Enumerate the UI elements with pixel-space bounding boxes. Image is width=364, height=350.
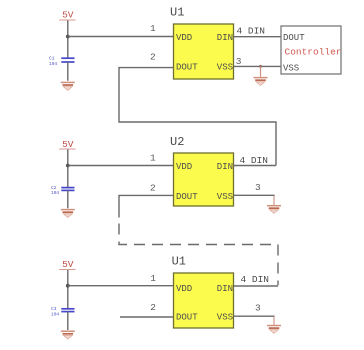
svg-text:VDD: VDD: [176, 33, 192, 43]
junction dot at 5V/VDD tap (middle): [66, 164, 70, 168]
svg-text:2: 2: [150, 302, 156, 313]
svg-text:U1: U1: [170, 6, 184, 20]
IC U1 (top) body: [174, 24, 234, 79]
IC U2 body: [174, 153, 234, 206]
capacitor C2: [51, 185, 75, 196]
wire: U1 VSS to Controller VSS: [234, 65, 282, 67]
wire: bottom U1 DIN stub: [234, 285, 279, 287]
wire: capacitor C1 to ground: [67, 62, 69, 81]
capacitor C1: [49, 56, 75, 67]
ground (below C1): [61, 82, 75, 90]
capacitor C3: [51, 306, 75, 317]
wire: 5V down to capacitor C2 top: [67, 150, 69, 188]
ground (top right, on VSS net): [254, 66, 268, 85]
svg-text:1: 1: [150, 273, 156, 284]
power flag 5V (bottom): [59, 259, 75, 270]
wire: junction to bottom U1 pin 1 (VDD): [68, 285, 174, 287]
wire: U2 DOUT left and partway down (solid): [119, 195, 174, 217]
wire: capacitor C3 to ground: [67, 312, 69, 330]
wire (dashed continuation): down, across, down to bottom U1 DIN: [119, 224, 278, 286]
wire: 5V down to capacitor C1 top: [67, 21, 69, 58]
svg-text:VSS: VSS: [217, 63, 233, 73]
wire: bottom U1 VSS stub to ground: [234, 315, 275, 317]
svg-text:2: 2: [150, 52, 156, 63]
power flag 5V (middle): [59, 139, 75, 150]
junction dot at VSS/ground tap: [259, 65, 262, 68]
svg-text:1: 1: [150, 23, 156, 34]
svg-text:C3: C3: [51, 306, 57, 312]
svg-text:VSS: VSS: [283, 63, 299, 73]
ground (middle right, on U2 VSS): [267, 206, 281, 214]
svg-text:4 DIN: 4 DIN: [237, 26, 266, 37]
svg-text:104: 104: [51, 190, 59, 196]
svg-text:C1: C1: [49, 56, 55, 62]
svg-text:5V: 5V: [62, 259, 74, 270]
svg-text:104: 104: [51, 311, 59, 317]
svg-text:DIN: DIN: [217, 284, 233, 294]
svg-text:VDD: VDD: [176, 162, 192, 172]
svg-text:3: 3: [255, 302, 261, 313]
wire: U2 DIN stub: [234, 165, 277, 167]
power flag 5V (top): [59, 9, 75, 20]
svg-text:DOUT: DOUT: [176, 313, 198, 323]
svg-text:DIN: DIN: [217, 33, 233, 43]
junction dot at 5V/VDD tap (bottom): [66, 284, 70, 288]
svg-text:Controller: Controller: [285, 47, 342, 58]
svg-text:DIN: DIN: [217, 162, 233, 172]
svg-text:5V: 5V: [62, 9, 74, 20]
svg-text:104: 104: [49, 61, 57, 67]
wire: U1 DOUT left then down and across to U2 DIN: [119, 68, 276, 166]
svg-text:DOUT: DOUT: [176, 63, 198, 73]
svg-text:C2: C2: [51, 185, 57, 191]
svg-text:VSS: VSS: [217, 192, 233, 202]
wire: U1 DIN to Controller DOUT: [234, 36, 282, 38]
wire: capacitor C2 to ground: [67, 190, 69, 208]
svg-text:4 DIN: 4 DIN: [241, 274, 270, 285]
svg-text:VDD: VDD: [176, 284, 192, 294]
svg-text:2: 2: [150, 182, 156, 193]
svg-text:4 DIN: 4 DIN: [240, 155, 269, 166]
svg-text:5V: 5V: [62, 139, 74, 150]
ground (below C2): [61, 210, 75, 218]
wire: junction to U2 pin 1 (VDD): [68, 165, 174, 167]
IC U1 (bottom) body: [174, 273, 234, 328]
ground (below C3): [61, 331, 75, 339]
svg-text:1: 1: [150, 152, 156, 163]
svg-text:3: 3: [255, 182, 261, 193]
svg-text:VSS: VSS: [217, 313, 233, 323]
svg-text:DOUT: DOUT: [283, 33, 305, 43]
wire: U2 VSS stub to ground: [234, 194, 275, 196]
ground (bottom right, on VSS): [267, 326, 281, 334]
junction dot at 5V/VDD tap: [66, 35, 70, 39]
svg-text:3: 3: [236, 56, 242, 67]
wire: bottom U1 DOUT stub to the left (open end): [120, 316, 174, 318]
svg-text:DOUT: DOUT: [176, 192, 198, 202]
Controller box: [281, 26, 342, 74]
wire: 5V down to capacitor C3 top: [67, 270, 69, 308]
wire: junction to U1 pin 1 (VDD): [68, 36, 174, 38]
svg-text:U1: U1: [172, 254, 186, 268]
svg-text:U2: U2: [170, 135, 184, 149]
